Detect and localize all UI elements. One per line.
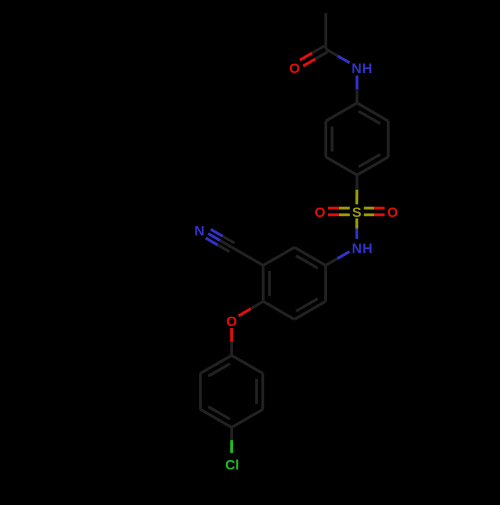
ring3 edge NW3-T3 [200, 355, 231, 373]
ring1 inner double R1c-R1d [359, 154, 381, 167]
ring2 edge BT2-V4 [263, 301, 294, 319]
ring1 edge R1c-R1d [357, 157, 388, 175]
ring1 edge R1f-T1 [326, 103, 357, 121]
ring3 edge T3-NE3 [232, 355, 263, 373]
carbonyl C1=O1 double bond [312, 46, 324, 53]
bond O-ring3 [230, 328, 233, 342]
ring1 edge T1-R1b [357, 103, 388, 121]
ring1 edge R1e-R1f [324, 121, 327, 157]
bond S-N2 (sulfonamide) [355, 218, 358, 228]
svg-text:S: S [352, 204, 361, 220]
ring2 edge T2-A2 [294, 247, 325, 265]
ring2 inner double B2-BT2 [296, 299, 318, 312]
ring3 inner double NE3-SE3 [255, 379, 258, 404]
ring3 edge NE3-SE3 [261, 373, 264, 409]
ring3 inner double B3-SW3 [208, 407, 230, 420]
ring3 edge SE3-B3 [232, 409, 263, 427]
ring2 edge V5-T2 [263, 247, 294, 265]
svg-text:O: O [226, 313, 237, 329]
svg-text:Cl: Cl [225, 457, 239, 473]
svg-text:H: H [362, 240, 372, 256]
ring1 edge R1b-R1c [387, 121, 390, 157]
ring2 inner double V4-V5 [268, 271, 271, 296]
svg-text:O: O [387, 204, 398, 220]
bond ring2-C(nitrile) [232, 247, 263, 265]
ring1 inner double T1-R1b [359, 111, 381, 124]
ring2 edge B2-BT2 [294, 301, 325, 319]
bond N1-ring1 [356, 76, 359, 90]
svg-text:O: O [315, 204, 326, 220]
ring3 inner double NW3-T3 [208, 364, 230, 377]
bond C1-N1 (amide) [326, 49, 338, 56]
svg-text:N: N [352, 240, 362, 256]
svg-text:H: H [362, 60, 372, 76]
ring1 edge R1d-R1e [326, 157, 357, 175]
S=O left double bond [339, 207, 350, 210]
bond CH3-C1 (acetyl methyl) [324, 13, 327, 49]
ring2 edge A2-B2 [324, 265, 327, 301]
ring1 inner double R1e-R1f [331, 127, 334, 152]
bond ring1-S [355, 175, 358, 190]
nitrile C#N triple bond [220, 241, 232, 248]
bond ring3-Cl [230, 427, 233, 440]
bond N2-ring2 [338, 252, 350, 259]
ring2 edge V4-V5 [262, 265, 265, 301]
S=O right double bond [364, 213, 374, 216]
svg-text:O: O [289, 60, 300, 76]
ring2 inner double T2-A2 [296, 256, 318, 269]
ring3 edge SW3-NW3 [199, 373, 202, 409]
svg-text:N: N [352, 60, 362, 76]
ring3 edge B3-SW3 [200, 409, 231, 427]
bond ring2-O (ether) [251, 301, 263, 308]
svg-text:N: N [194, 223, 204, 239]
